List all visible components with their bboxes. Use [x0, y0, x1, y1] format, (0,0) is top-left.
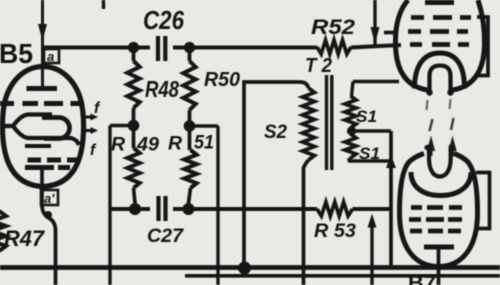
svg-text:R: R: [168, 133, 182, 155]
svg-text:R48: R48: [145, 76, 180, 102]
node a box: [44, 49, 59, 63]
node: [183, 203, 195, 215]
node: [128, 42, 139, 53]
svg-text:49: 49: [136, 134, 159, 156]
beam arrows: [430, 149, 433, 156]
tube V-top inner dome: [415, 53, 465, 89]
tube B7 grid row y207.5: [411, 205, 422, 210]
resistor R53: [317, 202, 353, 216]
node arrow down: [38, 24, 47, 41]
svg-text:B5: B5: [0, 38, 33, 69]
node: [129, 203, 141, 215]
svg-text:R: R: [111, 134, 125, 156]
wire: [110, 124, 134, 127]
tube V-top grid row y31.5: [408, 29, 421, 34]
svg-text:T 2: T 2: [305, 55, 332, 77]
resistor R52: [317, 40, 351, 54]
tube B5 lower grid dashes: [28, 158, 42, 163]
wire rail x110: [108, 126, 111, 285]
svg-text:R52: R52: [311, 16, 355, 39]
capacitor C27: [156, 196, 160, 221]
transformer core: [325, 75, 328, 170]
wire rail x389: [389, 131, 393, 268]
wire S1 bottom to rail: [348, 159, 391, 162]
svg-text:S2: S2: [264, 122, 287, 143]
transformer T2 winding S2: [300, 82, 309, 88]
tube B5 envelope: [2, 67, 83, 187]
svg-text:C27: C27: [147, 226, 184, 247]
node: [238, 262, 251, 275]
tube V-top small dome: [430, 66, 451, 94]
tube B7 cup tip curls: [424, 145, 429, 150]
tube V-top grid row y17.5: [411, 15, 424, 20]
tube B7 small cup: [429, 147, 451, 177]
wire bus2: [185, 274, 500, 278]
svg-text:C26: C26: [143, 5, 184, 35]
transformer winding S1 lower: [345, 134, 356, 158]
tube V-top envelope: [395, 0, 428, 90]
svg-text:R50: R50: [204, 68, 241, 91]
node arrow down: [371, 27, 380, 44]
wire: [102, 0, 105, 9]
svg-text:a: a: [47, 49, 54, 64]
svg-text:a': a': [44, 191, 55, 206]
node arrow blob: [386, 155, 396, 168]
tube B7 grid row y219.5: [409, 217, 421, 222]
resistor R51: [188, 126, 192, 150]
wire S1 top: [353, 80, 399, 83]
tube B5 cathode lead: [42, 167, 56, 285]
tube B5 cathode heater: [0, 115, 52, 127]
node S1 tap: [347, 126, 356, 135]
tube B5 bottom electrode: [25, 165, 54, 170]
svg-text:R47: R47: [4, 226, 46, 251]
node: [184, 42, 195, 53]
wire stub left: [384, 31, 397, 35]
wire rail x244: [244, 82, 300, 273]
node: [128, 120, 140, 132]
capacitor C26: [156, 36, 160, 61]
node kink: [44, 211, 52, 219]
resistor R48: [132, 47, 136, 61]
wire: [43, 46, 151, 50]
tube B7 inner cup: [411, 172, 471, 196]
resistor R47: [0, 211, 6, 251]
wire bracket right: [476, 173, 490, 229]
wire arrow up: [370, 225, 373, 285]
node a-prime box: [41, 190, 58, 205]
wire row: [110, 207, 150, 211]
tube B7 grid row y231: [410, 229, 422, 234]
svg-text:B7: B7: [408, 272, 436, 285]
wire: [190, 124, 219, 127]
transformer winding S1 upper: [352, 82, 354, 97]
tube V-top cathode bar: [425, 0, 454, 5]
svg-text:S1: S1: [356, 108, 377, 126]
node: [184, 120, 196, 132]
tube B5 anode plate: [27, 86, 58, 91]
wire rail x218: [216, 126, 219, 285]
tube B7 cathode: [424, 245, 454, 250]
tube B7 envelope: [400, 154, 478, 267]
svg-text:51: 51: [194, 132, 214, 154]
wire: [41, 0, 44, 86]
node f arrows: [83, 116, 92, 119]
wire bracket right: [476, 17, 488, 76]
tube B5 grid dashes: [0, 101, 14, 106]
wire: [373, 0, 376, 45]
resistor R49: [132, 126, 136, 148]
resistor R50: [188, 47, 192, 61]
wire bus: [0, 265, 500, 270]
wire S1 tap to rail: [352, 129, 392, 132]
tube V-top grid row y44.5: [410, 42, 422, 47]
svg-text:R 53: R 53: [314, 220, 356, 242]
